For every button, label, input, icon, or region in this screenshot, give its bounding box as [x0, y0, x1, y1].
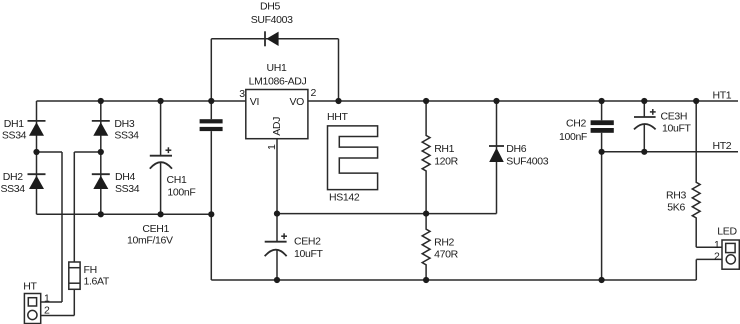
- wire top rail left segment: [37, 100, 246, 102]
- resistor RH2: [422, 214, 430, 280]
- wire DH1/DH2 column: [36, 101, 38, 214]
- svg-text:HHT: HHT: [327, 111, 348, 123]
- svg-text:1: 1: [266, 144, 278, 150]
- svg-text:120R: 120R: [434, 155, 458, 167]
- wire bridge mid tap left: [37, 151, 63, 153]
- wire LED pin2 horizontal: [696, 258, 722, 260]
- capacitor CH1: [150, 101, 172, 214]
- wire DH5 branch horizontal: [211, 38, 338, 40]
- wire bridge bottom rail: [37, 213, 212, 215]
- wire ground rail: [211, 279, 696, 281]
- wire HT pin1: [41, 301, 62, 303]
- svg-text:RH3: RH3: [666, 189, 686, 201]
- svg-text:SUF4003: SUF4003: [251, 14, 293, 26]
- svg-text:HS142: HS142: [329, 192, 360, 204]
- svg-text:UH1: UH1: [267, 62, 287, 74]
- svg-text:LED: LED: [717, 226, 737, 238]
- svg-text:SS34: SS34: [115, 183, 140, 195]
- diode DH2: [28, 174, 46, 189]
- svg-text:VO: VO: [290, 96, 305, 108]
- wire HT2 rail: [602, 151, 738, 153]
- node junction dots ADJ rail: [274, 211, 429, 217]
- svg-text:SS34: SS34: [2, 129, 27, 141]
- node junction dots bridge mid: [33, 149, 104, 155]
- svg-text:5K6: 5K6: [667, 201, 685, 213]
- wire HT pin2: [41, 315, 75, 317]
- capacitor CE3H: [634, 101, 656, 152]
- diode DH5: [265, 31, 279, 46]
- wire DH5 branch right riser: [338, 39, 340, 101]
- svg-text:1.6AT: 1.6AT: [84, 276, 110, 288]
- wire AC riser 1: [61, 152, 63, 302]
- svg-text:2: 2: [714, 251, 720, 263]
- resistor RH3: [692, 101, 700, 247]
- diode DH4: [92, 174, 110, 189]
- fuse FH: [69, 262, 80, 289]
- wire AC riser 2 lower: [73, 289, 75, 315]
- svg-text:CEH1: CEH1: [142, 223, 169, 235]
- capacitor CEH1: [200, 101, 223, 280]
- svg-text:RH1: RH1: [434, 143, 454, 155]
- svg-text:470R: 470R: [434, 248, 458, 260]
- connector LED: [722, 240, 739, 269]
- svg-text:DH3: DH3: [114, 118, 134, 130]
- wire LED pin1: [696, 246, 722, 248]
- wire DH5 branch left riser: [210, 39, 212, 101]
- svg-text:CE3H: CE3H: [661, 111, 688, 123]
- svg-text:10uFT: 10uFT: [662, 123, 692, 135]
- svg-text:HT1: HT1: [713, 89, 732, 101]
- svg-text:SUF4003: SUF4003: [506, 155, 548, 167]
- svg-text:CEH2: CEH2: [294, 235, 321, 247]
- node junction dots bridge bottom rail: [98, 211, 215, 217]
- capacitor CEH2: [265, 214, 287, 280]
- svg-text:VI: VI: [250, 96, 259, 108]
- svg-text:DH1: DH1: [4, 118, 24, 130]
- svg-text:SS34: SS34: [1, 183, 26, 195]
- wire LED pin2 riser: [695, 259, 697, 280]
- svg-text:FH: FH: [84, 264, 97, 276]
- svg-text:10mF/16V: 10mF/16V: [127, 235, 173, 247]
- svg-text:DH5: DH5: [260, 1, 280, 13]
- svg-text:1: 1: [714, 239, 720, 251]
- svg-text:100nF: 100nF: [559, 131, 587, 143]
- svg-text:10uFT: 10uFT: [294, 248, 324, 260]
- svg-text:SS34: SS34: [114, 129, 139, 141]
- wire ADJ pin down: [276, 139, 278, 214]
- diode DH1: [28, 121, 46, 136]
- svg-text:LM1086-ADJ: LM1086-ADJ: [249, 76, 307, 88]
- heatsink HHT: [328, 126, 378, 190]
- svg-text:2: 2: [311, 87, 317, 99]
- diode DH6: [489, 101, 504, 214]
- svg-text:100nF: 100nF: [167, 186, 195, 198]
- svg-text:ADJ: ADJ: [271, 117, 283, 136]
- wire top rail right segment (HT1 net): [308, 100, 738, 102]
- svg-text:DH6: DH6: [506, 143, 526, 155]
- wire DH3/DH4 column: [100, 101, 102, 214]
- svg-text:CH2: CH2: [566, 118, 586, 130]
- svg-text:DH4: DH4: [115, 171, 135, 183]
- svg-text:DH2: DH2: [3, 171, 23, 183]
- op-amp U1 regulator UH1 box: [246, 90, 308, 139]
- wire bridge mid tap right: [74, 151, 101, 153]
- svg-text:RH2: RH2: [434, 237, 454, 249]
- capacitor CH2: [591, 101, 614, 280]
- svg-text:CH1: CH1: [167, 174, 187, 186]
- svg-text:HT: HT: [23, 280, 37, 292]
- diode DH3: [92, 121, 110, 136]
- connector HT: [24, 294, 40, 324]
- node junction dots ground rail: [274, 277, 605, 283]
- wire ADJ rail: [277, 213, 497, 215]
- wire AC riser 2 upper: [73, 152, 75, 262]
- svg-text:HT2: HT2: [713, 140, 732, 152]
- node junction dots top rail: [98, 98, 700, 104]
- resistor RH1: [422, 101, 430, 214]
- node junction dots HT2 rail: [599, 149, 648, 155]
- svg-text:3: 3: [239, 88, 245, 100]
